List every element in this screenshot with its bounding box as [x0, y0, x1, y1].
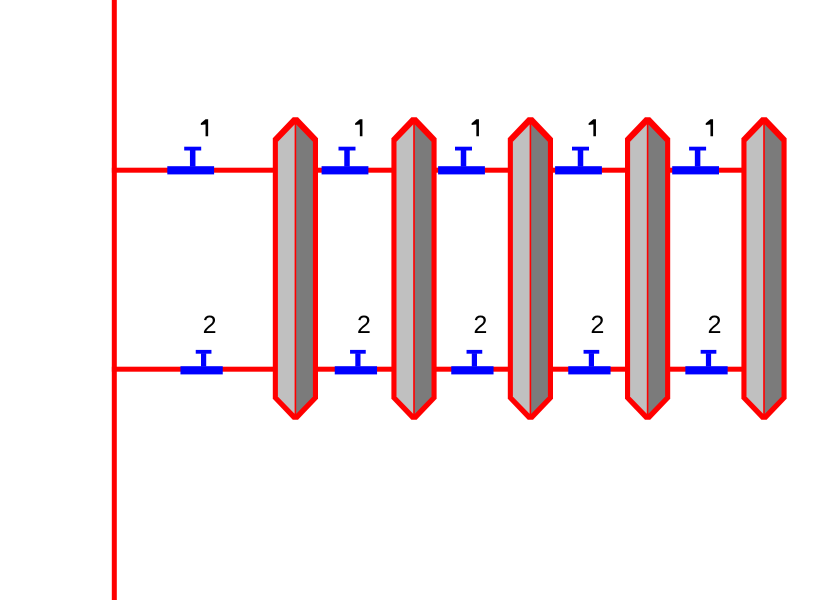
- label 1 (top valve, branch 1): [201, 119, 208, 136]
- valve 1 (top, branch 2): [322, 147, 369, 175]
- valve 2 (bottom, branch 2): [335, 350, 377, 375]
- radiator/vessel 2: [391, 117, 436, 420]
- wire: vertical supply main (bus): [112, 0, 117, 600]
- label 2 (bottom valve, branch 4): [592, 316, 603, 333]
- valve 1 (top, branch 5): [672, 147, 719, 175]
- radiator/vessel 1: [273, 117, 318, 420]
- valve 1 (top, branch 3): [438, 147, 485, 175]
- valve 2 (bottom, branch 5): [685, 350, 727, 375]
- radiator/vessel 5: [741, 117, 786, 420]
- radiator/vessel 3: [508, 117, 553, 420]
- label 1 (top valve, branch 2): [355, 119, 362, 136]
- label 2 (bottom valve, branch 2): [358, 316, 369, 333]
- valve 2 (bottom, branch 4): [568, 350, 610, 375]
- radiator/vessel 4: [625, 117, 670, 420]
- valve 1 (top, branch 4): [555, 147, 602, 175]
- label 2 (bottom valve, branch 3): [475, 316, 486, 333]
- wire: top header pipe: [112, 168, 764, 173]
- wire: bottom header pipe: [112, 367, 764, 372]
- label 2 (bottom valve, branch 1): [204, 316, 215, 333]
- valve 2 (bottom, branch 3): [451, 350, 493, 375]
- label 1 (top valve, branch 5): [706, 119, 713, 136]
- valve 1 (top, branch 1): [167, 147, 214, 175]
- label 2 (bottom valve, branch 5): [709, 316, 720, 333]
- valve 2 (bottom, branch 1): [180, 350, 222, 375]
- label 1 (top valve, branch 4): [589, 119, 596, 136]
- label 1 (top valve, branch 3): [472, 119, 479, 136]
